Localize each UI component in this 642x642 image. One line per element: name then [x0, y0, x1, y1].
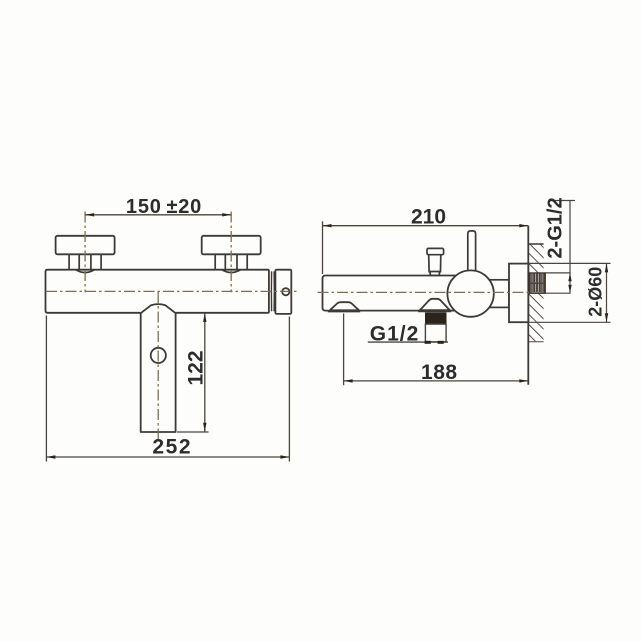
spout outline [141, 304, 176, 432]
left handle neck [69, 254, 101, 272]
lever rod [468, 231, 476, 274]
dim 122 [177, 313, 209, 432]
side body outline [323, 276, 457, 311]
end cap circle [282, 288, 289, 295]
label G1/2 with leader [368, 323, 448, 346]
spout circle [151, 348, 166, 363]
svg-text:2-Ø60: 2-Ø60 [585, 267, 605, 317]
svg-text:2-G1/2: 2-G1/2 [545, 197, 567, 258]
flange [509, 264, 528, 323]
wall hatch band [528, 244, 545, 342]
spout centerline [157, 292, 159, 440]
shower outlet dome (side) [418, 299, 451, 311]
dim 252 [46, 316, 289, 462]
svg-text:210: 210 [411, 206, 446, 229]
wall face line [527, 226, 529, 385]
dim 2-Ø60 [528, 263, 610, 322]
front body outline [46, 270, 269, 313]
end cap [275, 270, 291, 314]
diverter knob [427, 248, 444, 275]
left handle knob [56, 236, 115, 255]
shower outlet thread (black) [425, 312, 447, 324]
svg-text:252: 252 [152, 435, 192, 458]
right handle centerline [230, 212, 232, 293]
thread coil [529, 273, 545, 293]
side centerline [318, 291, 542, 293]
dim 150±20 [85, 196, 231, 218]
front body horizontal centerline [46, 290, 298, 292]
right handle neck [215, 254, 247, 272]
spout outlet dome (side) [328, 302, 360, 311]
svg-text:122: 122 [184, 350, 207, 385]
svg-text:188: 188 [421, 361, 458, 384]
right handle knob [202, 236, 261, 255]
dim 210 [323, 206, 529, 275]
front body-cap neck [271, 271, 274, 311]
dim 188 [344, 314, 529, 386]
valve circle [447, 270, 493, 316]
svg-text:150 ±20: 150 ±20 [126, 196, 202, 218]
connector to flange [490, 280, 509, 308]
shower outlet pipe [425, 324, 446, 342]
left handle centerline [84, 212, 86, 293]
dim 2-G1/2 [545, 197, 576, 293]
